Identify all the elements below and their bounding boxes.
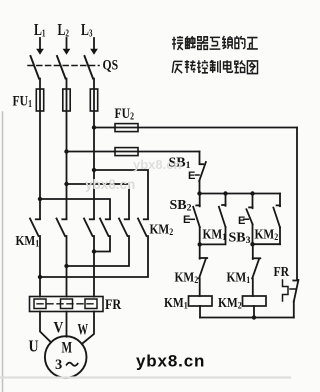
node motor terminal W label — [78, 320, 89, 338]
fuse FU2 element 2 — [115, 148, 138, 156]
fuse FU2 label — [115, 105, 135, 122]
svg-text:FU2: FU2 — [115, 105, 135, 122]
wire motor lead V — [66, 312, 68, 337]
contactor KM2 main contacts label — [150, 221, 174, 237]
wire control feed lower from L2 to SB1 — [67, 151, 200, 153]
scan artifact ghost watermark 1 — [133, 157, 181, 172]
wire L2 supply lead with arrowhead — [63, 38, 70, 54]
node L1 terminal label — [34, 21, 46, 39]
svg-text:KM1: KM1 — [164, 295, 188, 311]
contactor KM2 main contact pole 1 — [100, 219, 110, 237]
svg-text:ybx8.cn: ybx8.cn — [85, 177, 135, 192]
node junction L2 tap to KM2 pole 2 — [64, 182, 68, 186]
motor M 3-phase circle — [45, 336, 87, 378]
svg-text:M: M — [62, 339, 73, 356]
pushbutton SB1 stop contact — [199, 152, 206, 194]
svg-text:FR: FR — [274, 263, 290, 279]
relay FR contact label — [274, 263, 290, 279]
node L3 terminal label — [81, 21, 93, 39]
wire tap L2 to KM2 pole 2 — [67, 184, 130, 219]
svg-text:V: V — [54, 320, 64, 337]
motor M label — [55, 339, 78, 373]
node junction crossover on phase 1 — [38, 275, 42, 279]
coil KM2 label — [218, 295, 242, 311]
node junction SB3 KM2 parallel — [250, 242, 254, 246]
pushbutton SB3 actuator E — [238, 215, 248, 227]
contactor KM2 auxiliary self-holding contact — [273, 194, 280, 245]
scan artifact left edge line — [2, 112, 4, 392]
wire KM2 pole 2 output crossover to phase 2 — [67, 236, 130, 266]
contactor KM2 normally closed interlock contact — [199, 244, 207, 296]
svg-text:U: U — [29, 337, 39, 356]
node L2 terminal label — [58, 21, 70, 39]
contactor KM1 main contact pole 3 — [84, 219, 94, 237]
relay FR heater element 2 — [61, 299, 73, 309]
title Chinese line 1 — [172, 36, 258, 50]
switch QS pole 2 blade — [57, 56, 66, 79]
wire tap L1 to KM2 pole 1 — [40, 199, 110, 219]
svg-text:ybx8.cn: ybx8.cn — [136, 352, 205, 371]
node junction bus to KM1 aux — [223, 191, 227, 195]
relay FR thermal element box — [30, 297, 104, 312]
svg-text:KM2: KM2 — [175, 269, 199, 285]
wire control rail upper from L3 to right rail — [94, 127, 297, 129]
svg-text:KM2: KM2 — [255, 226, 279, 242]
svg-text:L1: L1 — [34, 21, 46, 39]
wire L3 supply lead with arrowhead — [91, 38, 98, 54]
contactor KM2 auxiliary contact label — [255, 226, 279, 242]
contactor KM2 main contact pole 2 — [119, 219, 129, 237]
svg-text:KM1: KM1 — [227, 269, 251, 285]
wire KM2 pole 3 output crossover to phase 1 — [40, 236, 148, 277]
contactor KM1 auxiliary contact label — [203, 226, 227, 242]
relay FR actuator symbol — [283, 280, 296, 301]
wire phase L2 from QS through FU1 to KM1 contact — [66, 79, 68, 219]
node junction bus to SB3 — [250, 191, 254, 195]
wire motor lead U — [40, 312, 51, 343]
switch QS linkage dashed line — [28, 65, 99, 67]
wire KM2 coil to bottom rail — [253, 306, 255, 318]
coil KM1 — [189, 296, 213, 306]
pushbutton SB1 actuator E — [188, 170, 199, 182]
wire phase L1 from QS through FU1 to KM1 contact — [39, 79, 41, 219]
coil KM1 label — [164, 295, 188, 311]
node junction KM2 coil on bottom rail — [252, 315, 256, 319]
switch QS pole 1 blade — [31, 56, 40, 79]
contactor KM1 main contacts label — [16, 233, 40, 249]
pushbutton SB2 label — [170, 198, 192, 214]
svg-text:KM1: KM1 — [203, 226, 227, 242]
fuse FU1 element 1 — [36, 89, 43, 111]
wire KM1 coil to bottom rail — [199, 306, 201, 318]
wire L1 supply lead with arrowhead — [37, 38, 44, 54]
relay FR heater linkage dashed — [37, 303, 94, 305]
svg-text:FU1: FU1 — [13, 92, 33, 109]
svg-text:SB3: SB3 — [229, 231, 251, 247]
svg-text:FR: FR — [105, 296, 122, 312]
contactor KM1 interlock label — [227, 269, 251, 285]
contactor KM1 main contact pole 1 — [30, 219, 40, 237]
wire control bus horizontal — [200, 193, 280, 195]
wire motor lead W — [82, 312, 94, 344]
svg-text:3: 3 — [55, 357, 62, 373]
svg-text:L2: L2 — [58, 21, 70, 39]
node junction L2 to FU2 lower — [64, 149, 68, 153]
pushbutton SB1 label — [169, 156, 191, 172]
svg-text:ybx8.cn: ybx8.cn — [133, 157, 181, 172]
wire bottom control rail — [200, 317, 294, 319]
node junction SB2 KM1 parallel — [198, 242, 202, 246]
node junction crossover on phase 2 — [64, 264, 68, 268]
svg-text:E: E — [188, 170, 195, 182]
pushbutton SB3 start reverse contact — [246, 194, 252, 245]
pushbutton SB2 start forward contact — [193, 194, 200, 245]
svg-text:E: E — [238, 215, 245, 227]
svg-text:W: W — [78, 320, 89, 338]
pushbutton SB2 actuator E — [183, 214, 194, 226]
wire tap L3 to KM2 pole 3 — [94, 170, 148, 219]
node junction L1 tap to KM2 pole 1 — [38, 197, 42, 201]
title Chinese line 2 — [172, 60, 257, 73]
svg-text:SB2: SB2 — [170, 198, 192, 214]
contactor KM1 auxiliary self-holding contact — [200, 194, 226, 245]
svg-text:QS: QS — [103, 56, 119, 73]
relay FR heater element 3 — [85, 299, 97, 309]
scan artifact bottom band — [0, 376, 290, 378]
fuse FU1 element 2 — [63, 89, 70, 111]
node junction SB1 output bus — [197, 191, 201, 195]
pushbutton SB3 label — [229, 231, 251, 247]
switch QS pole 3 blade — [85, 56, 94, 79]
wire KM2 pole 1 output crossover to phase 3 — [94, 236, 110, 252]
relay FR heater label — [105, 296, 122, 312]
contactor KM1 main contact pole 2 — [57, 219, 67, 237]
node junction L3 tap to KM2 pole 3 — [92, 168, 96, 172]
watermark ybx8.cn — [136, 352, 205, 371]
node junction crossover on phase 3 — [92, 249, 96, 253]
relay FR normally closed contact — [293, 280, 298, 318]
svg-text:KM2: KM2 — [150, 221, 174, 237]
node motor terminal U label — [29, 337, 39, 356]
wire KM1 pole 1 output down to FR — [39, 236, 41, 297]
node junction L3 to FU2 upper — [92, 125, 96, 129]
contactor KM1 normally closed interlock contact — [252, 244, 260, 296]
fuse FU1 label — [13, 92, 33, 109]
node motor terminal V label — [54, 320, 64, 337]
scan artifact ghost watermark 2 — [85, 177, 135, 192]
svg-text:KM1: KM1 — [16, 233, 40, 249]
wire KM1 pole 2 output down to FR — [66, 236, 68, 297]
wire KM1 pole 3 output down to FR — [93, 236, 95, 297]
svg-text:L3: L3 — [81, 21, 93, 39]
wire phase L3 from QS through FU1 to KM1 contact — [93, 79, 95, 219]
contactor KM2 interlock label — [175, 269, 199, 285]
contactor KM2 main contact pole 3 — [138, 219, 148, 237]
coil KM2 — [243, 296, 267, 306]
relay FR heater element 1 — [34, 299, 46, 309]
fuse FU2 element 1 — [115, 124, 138, 132]
wire SB3 KM2 parallel merge — [253, 243, 281, 245]
svg-text:KM2: KM2 — [218, 295, 242, 311]
fuse FU1 element 3 — [90, 89, 97, 111]
switch QS label — [103, 56, 119, 73]
wire right control rail down to FR contact — [296, 128, 298, 280]
